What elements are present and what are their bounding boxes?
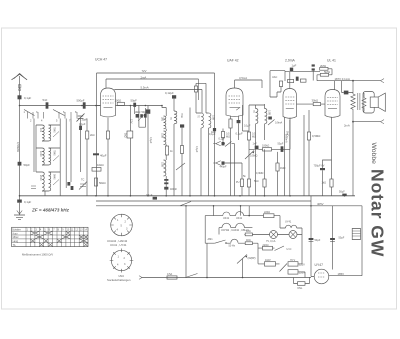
volume pot (245, 151, 258, 160)
wire 3.5mA line (235, 76, 262, 88)
TA input jack 1 (213, 138, 225, 146)
table X marks (30, 231, 88, 246)
svg-text:UF41: UF41 (236, 217, 243, 220)
svg-text:3: 3 (36, 228, 38, 231)
label 0.9mA (275, 122, 288, 143)
svg-text:1kΩ: 1kΩ (211, 131, 216, 134)
IF coil L below (161, 160, 166, 176)
svg-text:1,85mA: 1,85mA (285, 134, 288, 143)
heater bump UF41 a (223, 212, 230, 220)
svg-text:3: 3 (36, 111, 38, 114)
svg-text:72V: 72V (142, 69, 147, 73)
svg-text:9940: 9940 (53, 174, 56, 180)
capacitor 50pF plate (131, 99, 138, 107)
svg-text:1: 1 (24, 111, 26, 114)
svg-text:Schalter: Schalter (12, 228, 21, 231)
tube V5 UY47 (314, 263, 329, 284)
speaker (363, 92, 385, 114)
trimmer TC (79, 179, 87, 190)
svg-text:4: 4 (117, 264, 119, 267)
wire coil bottom links (42, 141, 49, 196)
resistor 0.56M rotated label (16, 142, 20, 152)
wire pot drop (242, 259, 244, 278)
svg-text:6: 6 (63, 111, 65, 114)
tone cap stub (342, 81, 353, 95)
capacitor 10nF (180, 124, 184, 127)
resistor det drop (180, 146, 183, 154)
resistor 100ohm (115, 98, 125, 105)
switch bus (180, 202, 191, 206)
wire UY pins (311, 275, 362, 278)
svg-text:U≈C: U≈C (287, 248, 292, 251)
svg-text:5nF: 5nF (43, 98, 48, 102)
resistor 1k T1 (165, 146, 173, 155)
svg-text:0,3MΩ: 0,3MΩ (256, 172, 264, 175)
resistor 1M (276, 163, 286, 171)
svg-text:0,1µF: 0,1µF (195, 146, 198, 153)
wire TA2 (225, 163, 243, 179)
wire avc (222, 129, 224, 144)
resistor mains dropper (352, 229, 362, 240)
IF transformer T1 secondary (161, 131, 166, 145)
label 0.5M det (252, 133, 256, 139)
svg-text:4: 4 (117, 229, 119, 232)
heater loop wires (205, 216, 263, 244)
tube V1 UCH47 (95, 58, 116, 117)
wire antenna stem (19, 76, 21, 106)
junction out (352, 80, 354, 123)
svg-text:5kΩ: 5kΩ (254, 180, 259, 183)
svg-text:5MΩ: 5MΩ (324, 70, 330, 74)
wire out cathode (323, 118, 332, 196)
svg-text:0,5MΩ: 0,5MΩ (250, 155, 258, 158)
wire screen drop (97, 73, 101, 196)
tube V4 UL41 (325, 59, 340, 118)
wire NSL (294, 277, 310, 284)
label 0.3M (256, 172, 264, 175)
svg-text:0,1µF: 0,1µF (236, 132, 243, 136)
svg-text:2: 2 (31, 228, 33, 231)
svg-text:PU: PU (236, 181, 240, 184)
svg-text:Kurz: Kurz (13, 232, 19, 235)
capacitor 0.1uF band (79, 119, 86, 172)
svg-text:UCH 47: UCH 47 (95, 58, 107, 62)
svg-text:0,88: 0,88 (268, 110, 271, 115)
svg-text:UC41 , UY41: UC41 , UY41 (110, 243, 127, 247)
output transformer core (358, 93, 360, 110)
tube2 extra labels (195, 125, 251, 153)
svg-text:7840: 7840 (53, 150, 56, 156)
wire 72V line (97, 69, 215, 73)
heater bump UF41 b (236, 212, 244, 220)
wire lamps row (244, 235, 302, 244)
svg-text:380: 380 (161, 117, 164, 122)
svg-text:5k: 5k (243, 175, 246, 178)
electrolytic 700uF (314, 165, 326, 196)
capacitor TA1 (222, 142, 225, 145)
mixer labels (135, 111, 148, 114)
wire speaker top (363, 93, 364, 112)
resistor 30k (312, 99, 321, 106)
svg-text:0,1µF: 0,1µF (79, 123, 86, 126)
mains line (142, 277, 311, 279)
capacitor TA2 (222, 161, 225, 164)
svg-text:0,1µF: 0,1µF (219, 138, 226, 141)
svg-text:MΩ: MΩ (226, 136, 230, 139)
NSL resistor (298, 282, 306, 290)
ground symbol (14, 203, 25, 220)
svg-text:2mA: 2mA (141, 75, 147, 79)
IF transformer T3 secondary (265, 109, 271, 124)
resistor 50k (94, 178, 105, 186)
capacitor bus 0.1uF (146, 194, 157, 200)
svg-text:10kΩ: 10kΩ (97, 163, 104, 167)
wire 220b (258, 247, 275, 249)
wire heater taps (214, 206, 250, 216)
switch TA (225, 142, 232, 147)
wire tube4 top (317, 69, 335, 90)
svg-text:8: 8 (75, 111, 77, 114)
resistor zigzag primary (351, 81, 355, 122)
capacitor 0.12uF top (165, 91, 176, 99)
svg-text:50kΩ: 50kΩ (99, 181, 106, 185)
wire 5.5mA line (115, 85, 203, 89)
title Wobbe (370, 143, 377, 165)
svg-text:2,9mA: 2,9mA (285, 59, 296, 63)
resistor 2M (320, 64, 328, 70)
lamp 2 (289, 231, 297, 239)
svg-text:100kΩ: 100kΩ (262, 145, 269, 148)
dipole arrow top (381, 79, 385, 83)
voltage selector 110 (265, 259, 276, 266)
grid2 feed parts (288, 77, 306, 83)
svg-text:14: 14 (84, 228, 87, 231)
heater bottom wire (226, 242, 245, 244)
svg-text:700µF 6V: 700µF 6V (314, 165, 325, 168)
capacitor 50uF det (278, 143, 284, 152)
bus B+ (96, 202, 362, 276)
svg-text:12: 12 (75, 228, 78, 231)
svg-text:TA: TA (13, 244, 16, 247)
svg-text:0,88: 0,88 (161, 162, 164, 167)
svg-text:2kΩ: 2kΩ (90, 134, 95, 137)
transformer secondary zigzag (362, 93, 366, 112)
heater bump row 2 (221, 223, 249, 232)
label 2mA (344, 124, 350, 128)
wire T2 bottoms (201, 128, 209, 196)
svg-text:50pF: 50pF (131, 99, 138, 103)
svg-text:4: 4 (40, 228, 42, 231)
switch UC (275, 246, 292, 251)
svg-text:70: 70 (197, 115, 200, 118)
capacitor T3 (268, 117, 272, 120)
svg-text:187V 0,1mA: 187V 0,1mA (335, 77, 351, 81)
selector wires (258, 264, 305, 278)
resistor 100k (262, 145, 272, 152)
capacitor 50uF bus (339, 191, 347, 196)
svg-text:220Ω: 220Ω (263, 244, 269, 247)
wire 220 (274, 216, 280, 228)
svg-text:70: 70 (169, 117, 172, 120)
capacitor 50uF a (309, 238, 321, 242)
svg-text:5: 5 (121, 225, 123, 228)
wire 30k line (297, 103, 326, 105)
wire pot drop (248, 140, 250, 196)
bus mid (96, 200, 311, 202)
svg-text:Sockelschaltungen: Sockelschaltungen (107, 278, 131, 282)
svg-text:13: 13 (80, 228, 83, 231)
capacitor 0.1uF screen (209, 128, 216, 136)
svg-text:405V: 405V (317, 202, 324, 206)
resistor 0.5M avc (221, 132, 230, 139)
svg-text:50 Hz: 50 Hz (229, 245, 236, 248)
capacitor 50uF b (330, 237, 345, 242)
svg-text:7V, 0,1A: 7V, 0,1A (266, 240, 276, 243)
svg-text:UAC: UAC (272, 76, 277, 79)
resistor 2k (86, 131, 95, 139)
svg-text:AM1: AM1 (208, 238, 214, 241)
svg-text:Meßinstrument 1000 Ω/V: Meßinstrument 1000 Ω/V (22, 253, 53, 257)
IF transformer T2 primary (197, 79, 204, 128)
heater mid wire (219, 228, 252, 235)
resistor 1k out (322, 179, 334, 187)
resistor 1k vert (124, 131, 133, 138)
table grid (12, 227, 88, 246)
svg-text:5,5mA: 5,5mA (141, 85, 149, 89)
cathode arrow tube2 (236, 107, 240, 110)
wire selector feed (258, 228, 302, 264)
svg-text:50µF: 50µF (339, 191, 345, 194)
svg-text:10kΩ: 10kΩ (135, 111, 141, 114)
resistor 5M (320, 70, 330, 76)
trimmer pair t4 (312, 64, 315, 80)
resistor 40b (245, 239, 252, 245)
resistor PU (236, 179, 244, 187)
coil L3 pair (39, 172, 59, 191)
capacitor C1 0.1uF (18, 95, 32, 100)
wire plate line (116, 105, 163, 107)
svg-text:5: 5 (56, 120, 58, 123)
svg-text:4: 4 (41, 120, 43, 123)
wire 1M drops (277, 152, 279, 196)
svg-text:UY41: UY41 (285, 221, 292, 224)
resistor feed (194, 86, 197, 92)
resistor 5k (243, 175, 251, 187)
svg-text:70Ω: 70Ω (180, 113, 183, 118)
svg-text:0,5MΩ: 0,5MΩ (312, 134, 320, 138)
svg-text:UL 41: UL 41 (327, 59, 336, 63)
trimmer pad2 (31, 186, 36, 189)
svg-text:185V: 185V (338, 272, 345, 276)
svg-text:2: 2 (30, 120, 32, 123)
resistor 40a (245, 230, 252, 236)
resistor 10k (92, 163, 104, 171)
svg-text:50pF: 50pF (24, 163, 31, 167)
mixer grid caps (130, 112, 147, 124)
svg-text:UF41: UF41 (223, 217, 230, 220)
svg-text:3,5mA: 3,5mA (239, 76, 247, 80)
wire PU drop (241, 187, 243, 196)
svg-text:0,5A: 0,5A (167, 273, 172, 276)
tube V3 (283, 59, 297, 119)
wire bottom output (353, 120, 384, 124)
svg-text:0,88: 0,88 (212, 115, 215, 120)
svg-text:0,88: 0,88 (161, 133, 164, 138)
svg-text:NSL: NSL (298, 287, 303, 290)
mains switch (186, 274, 198, 278)
wire 2mA line (106, 75, 199, 79)
svg-text:0,1µF: 0,1µF (146, 194, 153, 197)
resistor cathode 1k (106, 131, 109, 139)
capacitor C2 5nF (43, 98, 49, 109)
resistor 0.5M out (307, 132, 320, 140)
wire tube1 cathode drop (107, 118, 109, 131)
svg-text:3: 3 (124, 263, 126, 266)
capacitor 0.1uF (146, 109, 152, 144)
svg-text:50µF: 50µF (278, 143, 284, 146)
svg-text:1nF: 1nF (253, 143, 258, 146)
svg-text:50µF: 50µF (315, 239, 321, 242)
capacitor 50pF (18, 162, 31, 167)
svg-text:0,1µF: 0,1µF (244, 125, 251, 128)
svg-text:UAF 42: UAF 42 (227, 59, 239, 63)
heater bumps UY41 (280, 221, 302, 229)
IF transformer T2 secondary (209, 113, 215, 128)
svg-text:7: 7 (53, 228, 55, 231)
label ZF (31, 208, 70, 213)
svg-text:2: 2 (125, 221, 127, 224)
svg-text:ZF = 468/473 kHz: ZF = 468/473 kHz (31, 208, 70, 213)
svg-text:(0k|5P): (0k|5P) (248, 257, 256, 260)
wire 72V drop feed (196, 73, 215, 196)
wire tube2 drops (231, 116, 239, 196)
wire out drop (352, 122, 354, 196)
coil L2 pair (39, 148, 59, 165)
voltage selector 125 (288, 259, 305, 267)
svg-text:40µF: 40µF (100, 154, 107, 158)
band switch S1b (53, 110, 77, 123)
svg-text:440pF: 440pF (220, 166, 228, 169)
svg-text:10: 10 (67, 228, 70, 231)
svg-text:1: 1 (27, 228, 29, 231)
wire T3 (249, 104, 265, 196)
svg-text:2MΩ: 2MΩ (320, 64, 326, 68)
svg-text:MΩ: MΩ (252, 136, 256, 139)
ground lead (19, 196, 21, 200)
label 185V (338, 272, 345, 276)
wire cathode to bus (107, 139, 109, 196)
wire extra drops (182, 108, 190, 196)
resistor 1k2 (254, 179, 266, 187)
voltage selector 220 (288, 270, 305, 275)
capacitor 40uF (93, 153, 107, 157)
wire left drop (19, 106, 21, 196)
svg-text:TC: TC (81, 179, 85, 182)
wire coil top links (36, 125, 60, 172)
svg-text:220Ω: 220Ω (264, 211, 270, 214)
svg-text:Lang: Lang (13, 240, 19, 243)
wire PSU verticals (311, 196, 333, 277)
wire switch drops (34, 119, 87, 196)
wire det line (249, 118, 290, 150)
svg-text:12V: 12V (130, 119, 133, 124)
capacitor pair (164, 179, 168, 184)
capacitor pad (67, 182, 73, 190)
switch AM (208, 238, 236, 248)
IF transformer T3 primary (252, 109, 258, 124)
capacitor 400pF (164, 187, 177, 191)
fuse 0.5A (167, 273, 177, 279)
wire detector column (243, 105, 265, 140)
svg-text:1µF: 1µF (292, 64, 297, 68)
svg-text:1kΩ: 1kΩ (124, 133, 127, 138)
svg-text:6: 6 (49, 228, 51, 231)
svg-text:11: 11 (71, 228, 74, 231)
coil L1 pair (39, 125, 59, 141)
band switch S1a (24, 110, 44, 123)
svg-text:1: 1 (117, 219, 119, 222)
wire 0.5M drops (304, 110, 309, 196)
trimmer T3 (268, 120, 275, 126)
svg-text:40Ω: 40Ω (246, 239, 251, 242)
svg-text:500pF: 500pF (77, 99, 85, 103)
trimmer diag (176, 163, 185, 170)
svg-text:0,9mA: 0,9mA (275, 122, 283, 125)
mains plug marks (139, 276, 142, 280)
svg-text:Mittel: Mittel (13, 236, 19, 239)
svg-text:0,1µF: 0,1µF (24, 200, 31, 204)
rotated 5M label (286, 131, 289, 136)
resistor 0.5M vert (236, 132, 251, 141)
trimmer 30pF (77, 114, 88, 122)
title Notar GW (368, 169, 388, 257)
wire TA1 (225, 144, 235, 196)
svg-text:0,56MΩ: 0,56MΩ (16, 142, 20, 152)
capacitor 1nF (253, 143, 259, 150)
tube2 bottom parts (229, 119, 241, 128)
selector switch (280, 264, 288, 272)
svg-text:1000: 1000 (39, 151, 42, 157)
wire tube3 bottom (285, 118, 290, 196)
wire main input line (20, 105, 101, 107)
svg-text:2: 2 (124, 257, 126, 260)
wire 1k drop (264, 149, 266, 196)
svg-text:0,1µF: 0,1µF (149, 137, 152, 144)
coil 70ohm right (174, 111, 183, 124)
pot diag (237, 255, 256, 264)
svg-text:0,12µF: 0,12µF (165, 91, 174, 95)
svg-text:70: 70 (252, 110, 255, 113)
wire drops after tube1 (130, 106, 148, 196)
capacitor ground (17, 200, 31, 205)
bus chassis (20, 195, 356, 197)
socket diagram 2 (110, 249, 134, 273)
wire right branch (173, 99, 175, 196)
resistor 220ohm (264, 211, 275, 218)
svg-text:50µF: 50µF (339, 237, 345, 240)
antenna (12, 74, 28, 80)
svg-text:9: 9 (62, 228, 64, 231)
svg-text:40Ω: 40Ω (246, 230, 251, 233)
svg-text:5: 5 (44, 228, 46, 231)
TA input jack 2 (213, 161, 227, 169)
wire tube1 top pins (106, 79, 115, 90)
svg-text:Notar GW: Notar GW (368, 169, 388, 257)
socket diagram 1 (111, 214, 133, 236)
IF transformer T1 primary (161, 116, 173, 129)
wire T1 column (162, 106, 166, 196)
svg-text:1: 1 (118, 256, 120, 259)
